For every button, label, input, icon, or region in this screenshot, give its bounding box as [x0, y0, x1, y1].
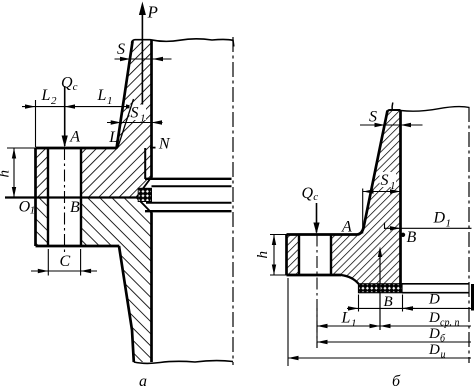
svg-text:1: 1 [446, 218, 452, 230]
edge bar at image right [471, 284, 474, 311]
membrane plate lower [146, 202, 232, 204]
svg-text:1: 1 [30, 205, 35, 217]
pipe bore wall lower [150, 213, 153, 363]
lower hub taper edge [119, 246, 134, 362]
svg-text:L: L [97, 87, 107, 104]
svg-text:C: C [60, 253, 71, 270]
svg-text:h: h [255, 251, 271, 259]
neck left sloped edge [117, 41, 133, 149]
neck left sloped edge [358, 111, 388, 235]
flange bottom edge [287, 274, 342, 277]
bolt hole edges upper [48, 148, 81, 246]
svg-text:c: c [73, 81, 78, 93]
svg-text:ср. п: ср. п [440, 318, 459, 329]
dimension C [31, 249, 97, 276]
svg-text:L: L [341, 310, 351, 327]
dimension S1 (fig a) [107, 105, 163, 125]
svg-text:S: S [117, 41, 125, 58]
extension line at flange outer edge [35, 100, 37, 147]
point B (fig b) [401, 233, 405, 237]
svg-text:L: L [108, 129, 118, 146]
upper flange with conical neck: hatched section [36, 41, 152, 198]
flange with welding neck: hatched section [287, 111, 401, 284]
top break wavy line [132, 39, 234, 47]
membrane plate upper [145, 178, 232, 180]
bolt axis (fig a) [64, 148, 66, 253]
dimension S (fig b) [360, 109, 423, 128]
svg-text:1: 1 [351, 318, 357, 330]
svg-text:D: D [428, 326, 440, 342]
dimension S (fig a) [115, 41, 172, 61]
svg-text:P: P [147, 3, 158, 22]
lower flange bottom edge [36, 245, 120, 248]
break line hook over neck top [391, 103, 394, 111]
svg-text:c: c [313, 191, 318, 203]
dimension Dcp.n (mean gasket diameter) [380, 310, 471, 329]
dimension line L2 / L1 [22, 87, 142, 147]
gasket (cross hatched) [359, 284, 403, 293]
bolt axis (fig b) [316, 235, 318, 349]
dimension D1 [385, 210, 472, 231]
svg-text:h: h [0, 170, 13, 178]
svg-text:а: а [139, 373, 147, 387]
svg-text:Q: Q [302, 185, 314, 202]
flange outline top [287, 233, 358, 236]
svg-text:B: B [384, 294, 393, 310]
svg-text:D: D [428, 342, 440, 358]
svg-text:N: N [158, 136, 171, 153]
svg-text:1: 1 [140, 113, 146, 125]
pipe axis (fig a) [232, 37, 234, 365]
svg-text:D: D [428, 292, 440, 308]
mating flange face lines [402, 283, 470, 285]
svg-text:L: L [41, 87, 51, 104]
dimension L1 (fig b) [317, 308, 380, 348]
pipe bore wall (fig b) [399, 110, 402, 292]
lower flange (mating) hatched section [36, 198, 152, 363]
gasket reaction line with up arrow [379, 249, 381, 330]
dimension h (fig a) [0, 148, 16, 198]
svg-text:D: D [428, 310, 440, 326]
notch for membrane weld [137, 177, 152, 213]
pipe axis (fig b) [468, 107, 470, 363]
dimension B (gasket width) [347, 294, 415, 312]
dimension S1 (fig b) [363, 172, 401, 234]
dimension h (fig b) [255, 235, 276, 276]
svg-text:Q: Q [61, 75, 73, 92]
bolt hole edges (fig b) [299, 235, 331, 276]
flange left edge [34, 148, 37, 246]
flange left edge [285, 235, 288, 276]
joint plane line O1-B [5, 196, 137, 198]
flange top edge [36, 147, 117, 150]
pipe bore wall upper [150, 40, 153, 178]
svg-text:A: A [341, 219, 352, 236]
dimension D [403, 292, 472, 311]
dimension Db (bolt circle) [317, 326, 471, 345]
svg-text:2: 2 [51, 95, 57, 107]
svg-text:и: и [441, 350, 446, 361]
svg-text:D: D [433, 210, 446, 227]
neck top edge [388, 110, 401, 112]
svg-text:B: B [70, 199, 80, 216]
force arrow P [141, 6, 143, 107]
dimension Du (outer diameter) [288, 278, 471, 366]
svg-text:S: S [381, 172, 389, 189]
chamfer to raised face [341, 275, 359, 284]
svg-text:1: 1 [107, 95, 113, 107]
svg-text:A: A [69, 129, 80, 146]
svg-text:1: 1 [390, 180, 396, 192]
force arrow Qc (fig b) [316, 203, 318, 233]
membrane recess wall [144, 148, 146, 179]
svg-text:B: B [407, 229, 417, 246]
top break wavy line (fig b) [401, 107, 470, 112]
svg-text:S: S [369, 109, 377, 126]
force arrow Qc [64, 86, 66, 146]
svg-text:б: б [392, 373, 401, 387]
svg-text:S: S [131, 105, 139, 122]
bottom break wavy line [134, 361, 233, 364]
weld seam block (cross hatched) [138, 188, 151, 201]
h extension line top [7, 147, 36, 149]
